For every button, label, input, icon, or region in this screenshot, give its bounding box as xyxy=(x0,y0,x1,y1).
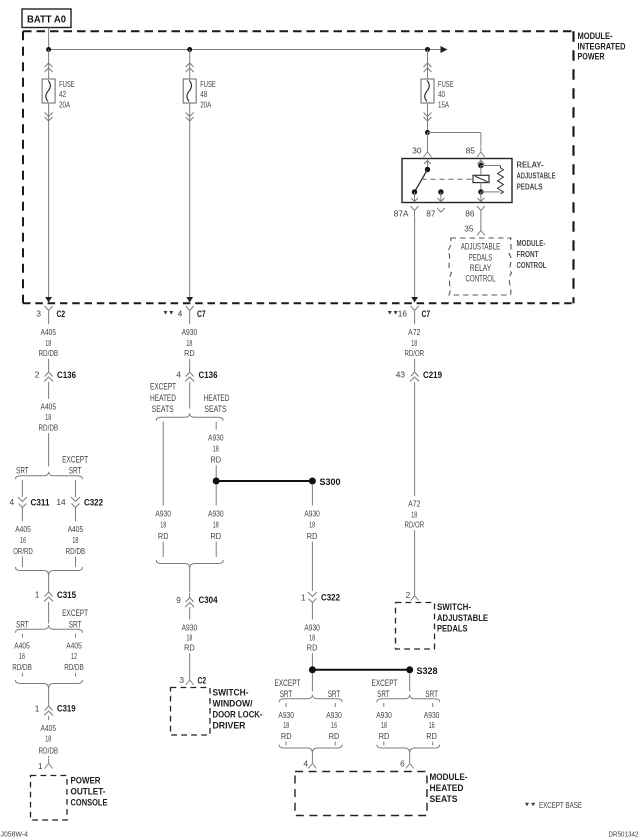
fuse F42 FUSE 42 20A xyxy=(42,79,55,103)
wire below C322 xyxy=(75,513,77,522)
svg-text:A405: A405 xyxy=(41,723,57,733)
svg-text:A405: A405 xyxy=(41,402,57,412)
svg-text:A930: A930 xyxy=(208,508,224,518)
merge brace hs-right xyxy=(377,745,440,754)
wire C322 to S328 xyxy=(311,608,313,620)
fuse F40 connector chevrons above xyxy=(424,63,432,67)
svg-text:40: 40 xyxy=(438,89,445,99)
relay internal wire to 86 xyxy=(480,192,482,202)
svg-text:A930: A930 xyxy=(208,432,224,442)
svg-text:HEATED: HEATED xyxy=(150,393,176,403)
svg-text:RD/DB: RD/DB xyxy=(39,745,59,755)
svg-text:C322: C322 xyxy=(84,497,103,507)
wire merge to C304 xyxy=(189,569,191,593)
node junction bus/fuse42 xyxy=(46,47,51,52)
svg-text:16: 16 xyxy=(331,720,337,730)
fuse F40 connector chevrons below xyxy=(424,113,432,117)
merge brace 2 xyxy=(15,680,82,689)
connector C136 pin 2 xyxy=(45,367,53,377)
fuse F40 FUSE 40 15A xyxy=(421,79,434,103)
svg-text:18: 18 xyxy=(283,720,289,730)
svg-text:18: 18 xyxy=(72,535,78,545)
svg-text:87A: 87A xyxy=(394,209,409,219)
heated seats pin 6 xyxy=(409,753,411,759)
wire SRT branch 2 xyxy=(21,634,23,638)
svg-text:2: 2 xyxy=(406,590,411,600)
connector C304 pin 9 xyxy=(186,593,194,603)
svg-text:FRONT: FRONT xyxy=(517,249,540,259)
fuse F48 FUSE 48 20A xyxy=(183,79,196,103)
svg-text:3: 3 xyxy=(179,675,184,685)
svg-text:POWER: POWER xyxy=(71,776,101,786)
svg-text:BATT A0: BATT A0 xyxy=(27,15,66,26)
svg-text:18: 18 xyxy=(309,632,315,642)
svg-text:SRT: SRT xyxy=(16,619,29,629)
svg-text:RELAY: RELAY xyxy=(470,263,492,273)
svg-text:C136: C136 xyxy=(57,370,76,380)
wire to relay pin30 xyxy=(427,133,429,148)
relay pin85 internal wire xyxy=(480,159,482,166)
connector C219 pin 43 xyxy=(411,367,419,377)
svg-text:SEATS: SEATS xyxy=(152,404,174,414)
svg-text:15A: 15A xyxy=(438,99,449,109)
svg-text:A930: A930 xyxy=(376,710,392,720)
svg-text:A930: A930 xyxy=(424,710,440,720)
svg-text:16: 16 xyxy=(398,309,408,319)
module heated seats dashed box xyxy=(295,772,427,816)
wire C219 to pedal switch xyxy=(414,382,416,496)
svg-text:FUSE: FUSE xyxy=(59,79,75,89)
fuse F48 connector chevrons below xyxy=(186,113,194,117)
wire SRT branch down xyxy=(21,480,23,497)
svg-text:MODULE-: MODULE- xyxy=(430,772,468,782)
adjustable pedals relay control cloud xyxy=(448,238,512,295)
svg-text:RD/DB: RD/DB xyxy=(64,662,84,672)
svg-text:POWER: POWER xyxy=(578,52,605,62)
wire power bus rail xyxy=(49,49,443,51)
wire EXCEPT SRT branch down xyxy=(75,480,77,497)
pin 35 fork xyxy=(477,226,485,236)
svg-text:2: 2 xyxy=(35,370,40,380)
svg-text:RD/DB: RD/DB xyxy=(66,546,86,556)
battery feed label box BATT A0 xyxy=(22,9,71,28)
svg-text:1: 1 xyxy=(301,593,306,603)
wire hs-right branchA xyxy=(383,703,385,707)
svg-text:ADJUSTABLE: ADJUSTABLE xyxy=(461,241,501,251)
node junction bus/fuse48 xyxy=(187,47,192,52)
svg-text:SWITCH-: SWITCH- xyxy=(213,688,249,698)
svg-text:42: 42 xyxy=(59,89,66,99)
svg-text:DOOR LOCK-: DOOR LOCK- xyxy=(213,710,263,720)
svg-text:SRT: SRT xyxy=(377,689,390,699)
switch window door lock dashed box xyxy=(171,688,211,736)
svg-text:S328: S328 xyxy=(417,666,438,676)
svg-text:C311: C311 xyxy=(31,497,50,507)
wire S300 down to C322 xyxy=(311,484,313,506)
wire merge to C315 xyxy=(48,576,50,588)
svg-text:RD/DB: RD/DB xyxy=(12,662,32,672)
svg-text:SWITCH-: SWITCH- xyxy=(437,602,471,612)
svg-text:16: 16 xyxy=(20,535,26,545)
wire S328tap down xyxy=(311,673,313,692)
svg-text:EXCEPT: EXCEPT xyxy=(372,678,398,688)
svg-text:DRIVER: DRIVER xyxy=(213,721,246,731)
svg-text:RD: RD xyxy=(184,348,195,358)
svg-text:FUSE: FUSE xyxy=(200,79,216,89)
fuse F42 connector chevrons above xyxy=(45,63,53,67)
svg-text:14: 14 xyxy=(56,497,66,507)
svg-text:16: 16 xyxy=(19,651,25,661)
relay pin 87A fork xyxy=(411,206,419,217)
svg-text:A405: A405 xyxy=(66,640,82,650)
fuse F42 connector chevrons below xyxy=(45,113,53,117)
svg-text:A405: A405 xyxy=(14,640,30,650)
svg-text:86: 86 xyxy=(465,209,475,219)
wire hs-left branchB xyxy=(334,703,336,707)
svg-text:DR501342: DR501342 xyxy=(609,829,639,838)
heated seats pin 4 xyxy=(311,753,313,759)
svg-text:20A: 20A xyxy=(59,99,70,109)
splice S328 node xyxy=(406,666,413,673)
svg-text:RD/OR: RD/OR xyxy=(405,520,425,530)
svg-text:35: 35 xyxy=(464,224,474,234)
connector C322 pin 14 xyxy=(71,497,80,502)
svg-text:18: 18 xyxy=(45,734,51,744)
wire fuse48 to connector C7 pin4 xyxy=(189,103,191,297)
wire C315 to split2 xyxy=(48,602,50,624)
svg-text:A930: A930 xyxy=(326,710,342,720)
svg-text:C136: C136 xyxy=(199,370,218,380)
node junction bus/fuse40 xyxy=(425,47,430,52)
split brace 2 xyxy=(15,625,82,633)
svg-text:MODULE-: MODULE- xyxy=(517,238,546,248)
svg-text:SRT: SRT xyxy=(69,466,82,476)
relay coil node top xyxy=(478,163,483,168)
svg-text:A72: A72 xyxy=(408,327,421,337)
wire hs-left branchA xyxy=(285,703,287,707)
splice S328 bold link xyxy=(312,669,409,671)
svg-text:18: 18 xyxy=(186,338,192,348)
relay internal wire to 87A xyxy=(414,192,416,202)
wire except-heated branch xyxy=(162,422,164,506)
svg-text:C319: C319 xyxy=(57,703,76,713)
svg-text:18: 18 xyxy=(213,443,219,453)
connector C322 pin 1 xyxy=(308,592,317,597)
node junction relay feed xyxy=(425,130,430,135)
wire 86 to pin35 xyxy=(480,217,482,226)
svg-text:A930: A930 xyxy=(155,508,171,518)
wire bus to fuse F48 xyxy=(189,50,191,80)
svg-text:85: 85 xyxy=(466,146,476,156)
svg-text:SRT: SRT xyxy=(425,689,438,699)
svg-text:SEATS: SEATS xyxy=(204,404,226,414)
svg-text:18: 18 xyxy=(186,632,192,642)
svg-text:OUTLET-: OUTLET- xyxy=(71,787,106,797)
wire C319 to power outlet xyxy=(48,716,50,720)
wire C7-16 to C219 xyxy=(414,317,416,324)
svg-text:CONTROL: CONTROL xyxy=(466,273,496,283)
svg-text:RELAY-: RELAY- xyxy=(517,160,544,170)
svg-text:A405: A405 xyxy=(41,327,57,337)
svg-text:C304: C304 xyxy=(199,595,219,605)
svg-text:16: 16 xyxy=(429,720,435,730)
power outlet console dashed box xyxy=(31,776,68,821)
wire merge2 to C319 xyxy=(48,689,50,702)
svg-text:RD: RD xyxy=(211,455,222,465)
svg-text:18: 18 xyxy=(45,412,51,422)
svg-text:EXCEPT: EXCEPT xyxy=(62,455,88,465)
wire EXCEPT SRT branch 2 xyxy=(75,634,77,638)
svg-text:18: 18 xyxy=(160,520,166,530)
svg-text:RD: RD xyxy=(158,531,169,541)
wire BATT A0 to bus xyxy=(48,28,50,50)
relay actuation dashed link xyxy=(422,178,474,180)
wire fuse40 to relay node xyxy=(427,103,429,133)
svg-text:1: 1 xyxy=(35,703,40,713)
svg-text:4: 4 xyxy=(303,759,308,769)
module-integrated power dashed boundary box xyxy=(23,30,574,32)
svg-text:C315: C315 xyxy=(57,590,76,600)
relay pin 86 fork xyxy=(477,206,485,217)
svg-text:RD: RD xyxy=(281,731,292,741)
svg-text:RD/OR: RD/OR xyxy=(405,348,425,358)
svg-text:A72: A72 xyxy=(408,499,421,509)
svg-text:A405: A405 xyxy=(15,524,31,534)
svg-text:A930: A930 xyxy=(182,327,198,337)
wire C136 to SRT split xyxy=(48,382,50,399)
svg-text:1: 1 xyxy=(38,761,43,771)
svg-text:HEATED: HEATED xyxy=(204,393,230,403)
svg-text:RD: RD xyxy=(426,731,437,741)
svg-text:EXCEPT: EXCEPT xyxy=(150,382,176,392)
svg-text:4: 4 xyxy=(178,309,183,319)
wire C7-4 to C136-4 xyxy=(189,317,191,324)
wire S328 down xyxy=(409,673,411,692)
svg-text:EXCEPT: EXCEPT xyxy=(275,678,301,688)
svg-text:HEATED: HEATED xyxy=(430,783,464,793)
svg-text:C322: C322 xyxy=(321,593,340,603)
merge brace to C315 xyxy=(15,567,82,576)
relay suppression resistor xyxy=(481,165,501,167)
svg-text:C219: C219 xyxy=(423,370,442,380)
relay coil node bottom xyxy=(478,189,483,194)
svg-text:FUSE: FUSE xyxy=(438,79,454,89)
svg-text:1: 1 xyxy=(35,590,40,600)
svg-text:30: 30 xyxy=(412,146,422,156)
wire fuse42 to connector C2 pin3 xyxy=(48,103,50,297)
relay pin 30 fork xyxy=(424,147,432,157)
wire heated branch to S300 xyxy=(215,422,217,430)
svg-text:87: 87 xyxy=(426,209,436,219)
svg-text:S300: S300 xyxy=(320,477,341,487)
wire C2 to C136 xyxy=(48,317,50,324)
svg-text:18: 18 xyxy=(411,509,417,519)
svg-text:12: 12 xyxy=(71,651,77,661)
svg-text:18: 18 xyxy=(309,520,315,530)
svg-text:SRT: SRT xyxy=(328,689,341,699)
svg-text:PEDALS: PEDALS xyxy=(469,252,493,262)
relay pin 87 end xyxy=(437,208,445,212)
svg-text:A405: A405 xyxy=(68,524,84,534)
relay common contact node xyxy=(425,167,430,172)
svg-text:18: 18 xyxy=(213,520,219,530)
relay contact node 87 xyxy=(438,189,443,194)
split brace hs-right xyxy=(377,695,440,703)
svg-text:4: 4 xyxy=(9,497,14,507)
relay pin 85 fork xyxy=(477,147,485,157)
split brace hs-left xyxy=(279,695,342,703)
splice S328 tap node xyxy=(309,666,316,673)
svg-text:EXCEPT BASE: EXCEPT BASE xyxy=(539,800,582,810)
svg-text:OR/RD: OR/RD xyxy=(13,546,33,556)
merge brace to C304 xyxy=(156,560,223,569)
relay pin30 internal wire xyxy=(427,159,429,170)
svg-text:SEATS: SEATS xyxy=(430,794,458,804)
svg-text:48: 48 xyxy=(200,89,207,99)
svg-text:SRT: SRT xyxy=(16,466,29,476)
svg-text:3: 3 xyxy=(36,309,41,319)
relay armature switch xyxy=(415,170,428,193)
wire S300 tap continues down xyxy=(215,484,217,506)
svg-text:C2: C2 xyxy=(198,676,207,686)
splice S300 node xyxy=(309,478,316,485)
svg-text:WINDOW/: WINDOW/ xyxy=(213,699,253,709)
svg-text:6: 6 xyxy=(400,759,405,769)
merge brace hs-left xyxy=(279,745,342,754)
svg-text:A930: A930 xyxy=(304,508,320,518)
svg-text:RD: RD xyxy=(329,731,340,741)
svg-text:RD: RD xyxy=(379,731,390,741)
svg-text:C2: C2 xyxy=(57,309,66,319)
svg-text:RD: RD xyxy=(211,531,222,541)
svg-text:J058W-4: J058W-4 xyxy=(1,830,29,839)
connector C2 pin 3 xyxy=(45,306,53,317)
svg-text:RD: RD xyxy=(307,643,318,653)
svg-text:MODULE-: MODULE- xyxy=(578,31,613,41)
svg-text:18: 18 xyxy=(411,338,417,348)
svg-text:RD: RD xyxy=(184,643,195,653)
svg-text:C7: C7 xyxy=(197,309,206,319)
svg-text:C7: C7 xyxy=(422,309,431,319)
wire bus to fuse F40 xyxy=(427,50,429,80)
svg-text:18: 18 xyxy=(45,338,51,348)
svg-text:CONTROL: CONTROL xyxy=(517,260,547,270)
wire below C311 xyxy=(21,513,23,522)
connector C7 pin 4 xyxy=(164,311,168,315)
svg-text:A930: A930 xyxy=(278,710,294,720)
legend EXCEPT BASE xyxy=(525,803,529,807)
relay contact node 87A xyxy=(412,189,417,194)
svg-text:EXCEPT: EXCEPT xyxy=(62,608,88,618)
svg-text:20A: 20A xyxy=(200,99,211,109)
wire branch to relay pin85 xyxy=(428,132,481,134)
relay coil xyxy=(480,166,482,176)
split brace SRT/EXCEPT-SRT xyxy=(15,472,82,480)
svg-text:INTEGRATED: INTEGRATED xyxy=(578,41,626,51)
svg-text:ADJUSTABLE: ADJUSTABLE xyxy=(437,613,488,623)
svg-text:SRT: SRT xyxy=(69,619,82,629)
svg-text:43: 43 xyxy=(396,370,406,380)
connector C315 pin 1 xyxy=(45,587,53,597)
svg-text:9: 9 xyxy=(176,595,181,605)
wire hs-right branchB xyxy=(432,703,434,707)
split brace heated seats xyxy=(156,413,223,421)
svg-text:ADJUSTABLE: ADJUSTABLE xyxy=(517,171,556,181)
connector C311 pin 4 xyxy=(18,497,27,502)
splice S300 tap node xyxy=(213,478,220,485)
fuse F48 connector chevrons above xyxy=(186,63,194,67)
svg-text:RD/DB: RD/DB xyxy=(39,348,59,358)
svg-text:4: 4 xyxy=(176,370,181,380)
bus arrow xyxy=(441,46,448,53)
svg-text:SRT: SRT xyxy=(280,689,293,699)
splice S300 bold link xyxy=(216,480,312,482)
wire bus to fuse F42 xyxy=(48,50,50,80)
switch adjustable pedals dashed box xyxy=(396,603,435,650)
svg-text:PEDALS: PEDALS xyxy=(437,623,468,633)
connector C7 pin 16 xyxy=(388,311,392,315)
svg-text:A930: A930 xyxy=(182,622,198,632)
svg-text:A930: A930 xyxy=(304,622,320,632)
svg-text:18: 18 xyxy=(381,720,387,730)
wire C136-4 to seats split xyxy=(189,382,191,409)
connector C319 pin 1 xyxy=(45,701,53,711)
svg-text:CONSOLE: CONSOLE xyxy=(71,798,108,808)
svg-text:RD/DB: RD/DB xyxy=(39,422,59,432)
wire C304 to C2-3 xyxy=(189,607,191,620)
wire relay 87A to connector C7 pin16 xyxy=(414,217,416,297)
svg-text:RD: RD xyxy=(307,531,318,541)
relay internal wire to 87 xyxy=(440,192,442,202)
relay box xyxy=(402,159,512,203)
svg-text:PEDALS: PEDALS xyxy=(517,182,543,192)
connector C136 pin 4 xyxy=(186,367,194,377)
